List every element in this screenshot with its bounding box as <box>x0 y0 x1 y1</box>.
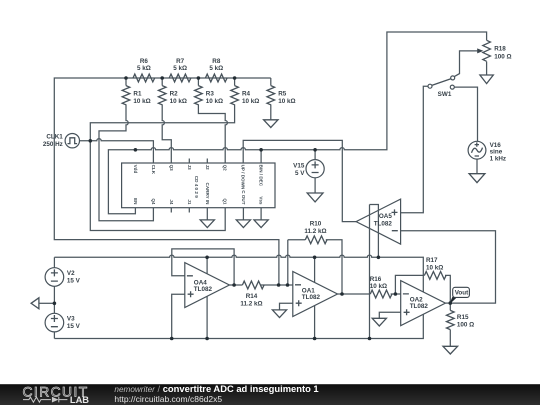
svg-text:R4: R4 <box>242 90 251 97</box>
svg-text:CLK1: CLK1 <box>46 134 63 141</box>
svg-text:5 kΩ: 5 kΩ <box>137 65 151 72</box>
svg-text:R14: R14 <box>246 293 258 300</box>
wire OA1 output to R16 <box>338 293 371 295</box>
svg-text:10 kΩ: 10 kΩ <box>426 264 443 271</box>
wire R16 right lead to OA2 - input <box>391 293 401 295</box>
svg-text:R5: R5 <box>278 90 287 97</box>
wire R17 right lead down to output node <box>445 275 450 303</box>
svg-text:TL082: TL082 <box>194 286 213 293</box>
ground R15 <box>443 346 458 354</box>
wire V16 bottom to ground <box>476 159 478 174</box>
svg-text:CLK: CLK <box>151 165 156 175</box>
wire DAC top rail and left drop to node A <box>54 78 279 285</box>
wire R10 left lead <box>288 239 306 241</box>
svg-text:C OUT: C OUT <box>241 190 246 204</box>
wire R18 bottom to ground <box>486 62 488 76</box>
wire OA4 supply vertical <box>206 257 208 338</box>
wire +15V rail <box>54 255 423 292</box>
svg-text:15 V: 15 V <box>67 323 81 330</box>
wire V15 top stub <box>314 150 316 160</box>
resistor R2 <box>158 86 166 105</box>
resistor R3 <box>195 86 203 105</box>
R18 wiper arrow <box>477 48 483 53</box>
clock source CLK1 <box>65 134 79 148</box>
svg-text:V2: V2 <box>67 270 75 277</box>
svg-text:nemowriter / convertitre ADC a: nemowriter / convertitre ADC ad inseguim… <box>114 383 318 394</box>
resistor R17 <box>424 272 446 280</box>
wire node A drop / node B drop to OA1 - wire <box>287 240 289 285</box>
svg-text:10 kΩ: 10 kΩ <box>206 98 223 105</box>
svg-text:11.2 kΩ: 11.2 kΩ <box>240 300 262 307</box>
svg-text:R8: R8 <box>212 58 221 65</box>
wire R2 top lead <box>161 78 163 86</box>
voltage source V2 <box>45 268 64 287</box>
IC ground pin Vss <box>260 208 262 220</box>
svg-text:R16: R16 <box>370 276 382 283</box>
wire over OA5: R16 riser loop to +15 rail <box>370 205 379 339</box>
IC ground pin CARRY OUT <box>242 208 244 220</box>
svg-text:R6: R6 <box>140 58 149 65</box>
wire R16/R17 junction riser <box>395 275 424 294</box>
wire R5 top lead <box>270 78 272 86</box>
svg-text:CD 4 0 2 9: CD 4 0 2 9 <box>194 176 199 198</box>
resistor R18 <box>483 40 491 61</box>
wire UP/DOWN pin to OA5 output <box>243 140 356 221</box>
wire R4 top lead <box>234 78 236 86</box>
wire R15 top lead <box>449 303 451 310</box>
svg-text:V3: V3 <box>67 315 75 322</box>
svg-text:5 kΩ: 5 kΩ <box>173 65 187 72</box>
IC bottom bare stubs J4 J1 <box>171 208 189 213</box>
resistor R10 <box>305 236 327 244</box>
wire BIN/DEC stub <box>260 150 262 163</box>
op-amp OA5 <box>356 199 401 244</box>
svg-text:15 V: 15 V <box>67 277 81 284</box>
wire R18 wiper to SW1 throw 1 <box>454 51 477 77</box>
ground left of V2/V3 <box>31 298 39 309</box>
ground V16 <box>469 174 485 183</box>
CircuitLab logo squiggle: wire, resistor, diode <box>23 397 67 403</box>
voltage source V16 <box>468 141 486 159</box>
svg-text:10 kΩ: 10 kΩ <box>370 283 387 290</box>
resistor R6 <box>133 74 155 82</box>
svg-text:5 kΩ: 5 kΩ <box>209 65 223 72</box>
svg-text:10 kΩ: 10 kΩ <box>242 98 259 105</box>
wire R10 right lead down to OA1 output node <box>326 240 342 294</box>
wire R15 bottom to ground <box>449 330 451 347</box>
wire SW1 throw 2 to V16 <box>454 87 477 141</box>
IC ground pin CARRY IN <box>206 208 208 220</box>
svg-text:R18: R18 <box>494 46 506 53</box>
resistor R14 <box>242 281 264 289</box>
ground V15 <box>307 193 323 202</box>
ground R18 <box>480 75 493 84</box>
wire OA2 output to node <box>445 302 450 304</box>
svg-text:Q2: Q2 <box>223 165 228 172</box>
wire R1 bottom to Q4 via left wrap <box>99 104 153 220</box>
flag Vout <box>450 297 456 303</box>
svg-text:R15: R15 <box>457 314 469 321</box>
svg-text:100 Ω: 100 Ω <box>494 53 511 60</box>
ground OA1 + <box>272 310 286 318</box>
svg-text:Vss: Vss <box>259 196 264 205</box>
wire V15 bottom to ground <box>314 178 316 193</box>
svg-text:J1: J1 <box>187 199 192 205</box>
svg-text:TL082: TL082 <box>410 303 429 310</box>
resistor R4 <box>231 86 239 105</box>
voltage source V3 <box>45 313 64 332</box>
resistor R16 <box>370 290 392 298</box>
svg-text:R7: R7 <box>176 58 185 65</box>
svg-text:BIN / DEC: BIN / DEC <box>259 165 264 187</box>
svg-text:J2: J2 <box>205 165 210 171</box>
svg-text:J4: J4 <box>169 199 174 205</box>
svg-text:Vdd: Vdd <box>133 165 138 174</box>
svg-text:1 kHz: 1 kHz <box>490 155 506 162</box>
svg-text:http://circuitlab.com/c86d2x5: http://circuitlab.com/c86d2x5 <box>114 394 222 404</box>
svg-text:sine: sine <box>490 148 503 155</box>
switch SW1 <box>432 79 451 86</box>
resistor R8 <box>205 74 227 82</box>
wire R14 to OA1 - input <box>261 284 293 286</box>
svg-text:R10: R10 <box>310 220 322 227</box>
svg-text:LAB: LAB <box>70 395 89 405</box>
svg-text:Q3: Q3 <box>169 165 174 172</box>
svg-text:10 kΩ: 10 kΩ <box>278 98 295 105</box>
svg-text:250 Hz: 250 Hz <box>43 141 63 148</box>
resistor R5 <box>267 86 275 105</box>
wire Vdd net: EN wrap, Vdd pin, BIN/DEC, V15, R18 top <box>108 32 486 214</box>
wire R1 top lead <box>125 78 127 86</box>
ground OA2 + <box>372 318 386 326</box>
svg-text:TL082: TL082 <box>302 294 321 301</box>
svg-text:Q1: Q1 <box>223 198 228 205</box>
svg-text:SW1: SW1 <box>438 91 452 98</box>
svg-text:R3: R3 <box>206 90 215 97</box>
wire -15V rail <box>54 314 423 338</box>
svg-text:UP / DOWN: UP / DOWN <box>241 165 246 190</box>
wire OA2 + input to ground <box>379 312 400 318</box>
svg-text:R1: R1 <box>133 90 142 97</box>
svg-text:10 kΩ: 10 kΩ <box>133 98 150 105</box>
wire R2 bottom to Q3 <box>162 104 171 163</box>
svg-text:CARRY IN: CARRY IN <box>205 183 210 206</box>
svg-text:Q4: Q4 <box>151 198 156 205</box>
svg-text:R17: R17 <box>426 257 438 264</box>
svg-text:100 Ω: 100 Ω <box>457 321 474 328</box>
IC U1 CD4029 <box>122 163 275 208</box>
wire V3 bottom to -15 rail <box>53 332 55 339</box>
wire OA5 - input to OA2 output node <box>401 231 496 303</box>
resistor R1 <box>122 86 130 105</box>
svg-text:EN: EN <box>133 198 138 205</box>
resistor R7 <box>169 74 191 82</box>
op-amp OA4 <box>185 263 230 308</box>
wire R3 top lead <box>197 78 199 86</box>
wire V2 bottom / V3 top with mid node <box>53 286 55 313</box>
svg-text:J3: J3 <box>187 165 192 171</box>
svg-text:V15: V15 <box>293 162 305 169</box>
wire left ground stem <box>39 302 55 304</box>
svg-text:11.2 kΩ: 11.2 kΩ <box>304 228 326 235</box>
svg-text:OA5: OA5 <box>379 213 392 220</box>
voltage source V15 <box>306 160 324 178</box>
wire V2 top to +15 rail corner <box>53 257 55 267</box>
wire R3 bottom to Q2 <box>198 104 227 163</box>
resistor R15 <box>446 310 454 329</box>
ground R5 <box>264 120 278 128</box>
svg-text:Vout: Vout <box>455 290 469 297</box>
op-amp OA1 <box>293 272 338 317</box>
svg-text:R2: R2 <box>170 90 179 97</box>
svg-text:TL082: TL082 <box>374 221 393 228</box>
IC top bare stubs J3 J2 <box>189 159 207 164</box>
wire SW1 common to OA5 + input <box>401 86 428 213</box>
wire R5 bottom to ground <box>270 104 272 119</box>
wire OA4 feedback loop <box>172 249 234 285</box>
wire OA1 supply vertical <box>314 257 316 338</box>
svg-text:5 V: 5 V <box>295 170 305 177</box>
wire R4 bottom to Q1 via far left wrap <box>90 104 234 230</box>
wire OA4 + input to -15 rail <box>172 294 185 338</box>
wire CLK1 output to CLK pin <box>80 139 154 163</box>
svg-text:10 kΩ: 10 kΩ <box>170 98 187 105</box>
wire OA1 + input to ground <box>280 303 293 310</box>
op-amp OA2 <box>401 281 446 326</box>
wire OA4 output to R14 <box>229 284 242 286</box>
